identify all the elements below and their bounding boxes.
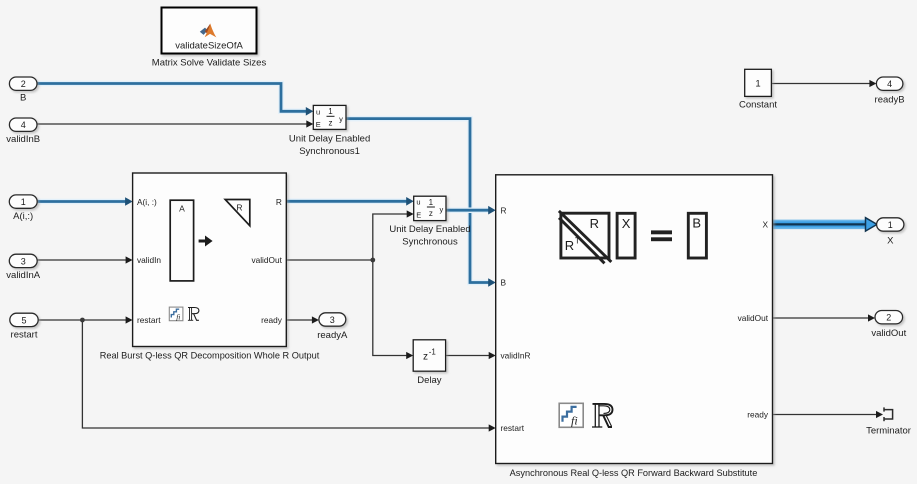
svg-text:1: 1 (328, 107, 333, 116)
output port 3 readyA (319, 313, 346, 326)
svg-text:2: 2 (886, 313, 891, 323)
fi icon small (169, 307, 183, 321)
icon equals (651, 230, 672, 234)
block Unit Delay Enabled Synchronous (414, 196, 446, 220)
svg-text:-1: -1 (429, 347, 437, 356)
svg-text:ready: ready (747, 410, 769, 420)
wire: UDS y -> big R, blue (446, 207, 489, 213)
icon A matrix (170, 200, 193, 281)
junction restart (80, 318, 85, 323)
wire: validInA -> validIn (37, 259, 126, 261)
svg-text:A(i, :): A(i, :) (137, 197, 157, 207)
wire: UD1 y -> big B, blue (346, 119, 489, 283)
wire: X out highlighted (big X -> out1) (773, 220, 867, 230)
wire: Constant -> readyB (771, 83, 869, 85)
svg-text:Unit Delay Enabled: Unit Delay Enabled (289, 133, 370, 144)
double-struck R small (188, 308, 199, 321)
input port 3 validInA (9, 254, 37, 267)
wire: validInB -> UD1 E (37, 123, 307, 125)
svg-text:T: T (575, 237, 580, 246)
svg-text:R: R (236, 203, 242, 213)
svg-text:1: 1 (429, 198, 434, 207)
svg-text:restart: restart (11, 329, 38, 340)
svg-text:A: A (179, 204, 185, 214)
output port 1 X (877, 218, 904, 231)
svg-text:R: R (501, 205, 507, 215)
svg-text:B: B (692, 216, 701, 231)
svg-text:z: z (329, 119, 333, 128)
svg-text:R: R (276, 197, 282, 207)
block validateSizeOfA (162, 8, 257, 54)
svg-text:y: y (440, 205, 444, 214)
svg-text:readyB: readyB (875, 95, 905, 106)
svg-text:Real Burst Q-less QR Decomposi: Real Burst Q-less QR Decomposition Whole… (100, 351, 320, 361)
svg-text:u: u (416, 198, 420, 207)
wire: A(i,:) -> left block, blue (37, 199, 126, 205)
svg-text:Matrix Solve Validate Sizes: Matrix Solve Validate Sizes (152, 58, 267, 69)
input port 2 B (9, 77, 37, 90)
svg-text:1: 1 (21, 197, 26, 207)
svg-text:R: R (565, 238, 574, 253)
icon triangle R (225, 200, 250, 226)
svg-text:fi: fi (176, 312, 180, 321)
Terminator (884, 407, 893, 421)
svg-text:1: 1 (888, 220, 893, 230)
svg-text:3: 3 (330, 315, 335, 325)
svg-text:restart: restart (501, 423, 525, 433)
svg-text:restart: restart (137, 315, 161, 325)
block Delay (413, 340, 445, 371)
block Constant (745, 69, 772, 96)
svg-text:validInB: validInB (6, 134, 40, 145)
input port 4 validInB (9, 118, 37, 131)
svg-text:u: u (316, 108, 320, 117)
wire: big ready -> Terminator (773, 414, 877, 416)
svg-text:R: R (590, 216, 599, 231)
svg-text:ready: ready (261, 315, 283, 325)
svg-text:X: X (622, 216, 631, 231)
double-struck R big (592, 404, 613, 427)
arrowhead into big restart (489, 424, 496, 431)
svg-text:4: 4 (887, 79, 892, 89)
svg-text:z: z (429, 209, 433, 218)
icon RRt square (559, 211, 611, 263)
wire: R out (left block -> UDS u) blue (286, 199, 407, 205)
svg-text:Delay: Delay (417, 375, 442, 386)
svg-text:2: 2 (21, 79, 26, 89)
wire: restart net (port5 -> left block, branch down to big block) (38, 320, 489, 428)
matlab logo (200, 24, 217, 38)
svg-text:Constant: Constant (739, 100, 777, 111)
input port 5 restart (10, 313, 38, 326)
svg-text:E: E (316, 120, 321, 129)
icon B rect (688, 213, 706, 258)
block Unit Delay Enabled Synchronous1 (313, 105, 346, 129)
svg-text:readyA: readyA (317, 330, 348, 341)
arrowhead into left restart (126, 316, 133, 323)
block Real Burst QR (133, 173, 287, 347)
svg-text:validOut: validOut (738, 313, 769, 323)
svg-text:validOut: validOut (251, 255, 282, 265)
svg-text:X: X (762, 220, 768, 230)
svg-text:y: y (339, 114, 343, 123)
svg-text:fi: fi (571, 414, 578, 428)
svg-text:validInR: validInR (501, 351, 531, 361)
wire: ready(left) -> readyA (286, 319, 312, 321)
svg-text:validOut: validOut (871, 328, 906, 339)
svg-text:Asynchronous Real Q-less QR Fo: Asynchronous Real Q-less QR Forward Back… (510, 468, 758, 478)
svg-text:3: 3 (21, 256, 26, 266)
block Asynchronous QR Substitute (496, 175, 773, 464)
output port 4 readyB (876, 77, 903, 90)
input port 1 A(i,:) (9, 195, 37, 208)
svg-text:4: 4 (21, 120, 26, 130)
fi icon big (559, 403, 583, 427)
svg-text:validInA: validInA (6, 270, 40, 281)
output port 2 validOut (875, 311, 903, 324)
svg-text:Synchronous1: Synchronous1 (299, 146, 360, 157)
svg-text:1: 1 (755, 79, 760, 90)
svg-text:X: X (887, 235, 894, 246)
wire: B (port2 -> UD1 u) blue (37, 84, 306, 112)
wire: validOut net (left block -> junction -> UDS E, -> Delay) (286, 214, 407, 356)
svg-text:A(i,:): A(i,:) (13, 211, 33, 222)
svg-text:z: z (423, 351, 428, 362)
icon X rect (617, 213, 635, 258)
svg-text:B: B (20, 93, 26, 104)
svg-text:validIn: validIn (137, 255, 161, 265)
svg-text:5: 5 (21, 315, 26, 325)
svg-text:validateSizeOfA: validateSizeOfA (175, 41, 243, 52)
svg-text:E: E (416, 211, 421, 220)
wire: Delay -> validInR (446, 355, 489, 357)
highlighted arrowhead X (866, 218, 878, 231)
wire: big validOut -> out2 (773, 317, 869, 319)
icon arrow (199, 236, 213, 247)
svg-text:Terminator: Terminator (866, 425, 911, 436)
svg-text:Synchronous: Synchronous (402, 237, 458, 248)
svg-text:B: B (501, 278, 507, 288)
svg-text:Unit Delay Enabled: Unit Delay Enabled (389, 224, 470, 235)
